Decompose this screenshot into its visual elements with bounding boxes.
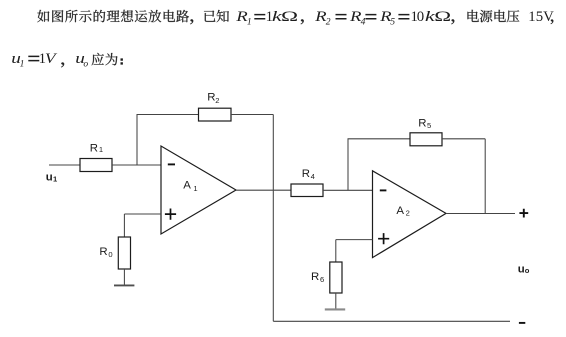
- svg-text:o: o: [525, 266, 530, 275]
- label uo: [518, 263, 530, 275]
- problem text: power supply voltage: [468, 10, 520, 23]
- svg-text:Ω: Ω: [434, 9, 451, 25]
- svg-text:2: 2: [406, 209, 410, 218]
- wire down to R6: [335, 240, 337, 262]
- formula R2 = R4 = R5 = 10k ohm: [314, 8, 451, 28]
- wire R0 to ground: [123, 269, 125, 285]
- A2 minus sign: [380, 189, 387, 191]
- svg-text:4: 4: [361, 17, 366, 28]
- resistor R1: [80, 159, 112, 172]
- label R5: [418, 118, 431, 130]
- ground (A2 bias): [325, 308, 345, 310]
- A1 minus sign: [168, 163, 175, 165]
- svg-text:u: u: [46, 172, 53, 184]
- svg-text:4: 4: [311, 172, 315, 181]
- problem text: 已知: [204, 10, 229, 22]
- resistor R2: [199, 108, 232, 121]
- wire A1 output to R4: [236, 189, 291, 191]
- resistor R5: [410, 133, 442, 146]
- fullwidth comma: [61, 62, 64, 67]
- label R1: [90, 143, 103, 155]
- wire junction up to feedback R2: [136, 115, 138, 166]
- svg-text:R: R: [418, 118, 426, 130]
- resistor R6: [330, 262, 342, 293]
- svg-text:5: 5: [390, 17, 395, 28]
- svg-text:5: 5: [427, 121, 431, 130]
- fullwidth comma: [551, 19, 554, 24]
- wire down to output: [484, 139, 486, 214]
- wire to R2 left: [137, 114, 199, 116]
- resistor R0: [118, 237, 130, 269]
- fullwidth comma: [451, 19, 454, 24]
- label R2: [207, 92, 219, 105]
- label R4: [302, 168, 315, 181]
- wire R5 right to corner: [442, 138, 485, 140]
- op-amp A2: [373, 171, 447, 258]
- formula u1 = 1V: [11, 50, 58, 69]
- wire R4 to A2 inverting input: [323, 189, 373, 191]
- output plus terminal: [519, 209, 528, 218]
- svg-text:A: A: [396, 205, 404, 217]
- fullwidth comma: [190, 19, 193, 24]
- svg-text:6: 6: [320, 275, 324, 284]
- formula R1 = 1k ohm: [235, 8, 298, 28]
- wire R6 to ground: [335, 293, 337, 309]
- svg-text:R: R: [302, 168, 310, 180]
- svg-text:R: R: [207, 92, 215, 104]
- svg-text:R: R: [90, 143, 98, 155]
- resistor R4: [291, 184, 323, 197]
- svg-text:2: 2: [326, 17, 331, 28]
- wire down to R0: [123, 214, 125, 237]
- A1 plus sign: [165, 209, 176, 220]
- label R0: [99, 246, 112, 259]
- wire to R5 left: [348, 138, 411, 140]
- svg-text:1: 1: [99, 145, 103, 154]
- wire R1 to A1 inverting input: [112, 164, 161, 166]
- wire A1 noninverting input: [124, 213, 161, 215]
- svg-text:Ω: Ω: [281, 9, 298, 25]
- svg-text:R: R: [99, 246, 107, 258]
- label R6: [311, 271, 324, 284]
- fullwidth comma: [301, 19, 304, 24]
- svg-text:0: 0: [108, 250, 112, 259]
- problem text: should be: [92, 53, 118, 66]
- svg-text:1: 1: [20, 58, 25, 69]
- wire R2 right to corner: [231, 114, 273, 116]
- formula uo: [75, 50, 88, 69]
- wire junction up to R5: [347, 139, 349, 191]
- label A2: [396, 205, 409, 218]
- output minus terminal: [519, 322, 525, 324]
- ground (A1 bias): [114, 284, 134, 286]
- svg-text:1: 1: [193, 184, 197, 193]
- svg-text:u: u: [518, 263, 525, 275]
- svg-text:2: 2: [215, 96, 219, 105]
- svg-text:15V: 15V: [528, 9, 554, 25]
- A2 plus sign: [378, 233, 389, 244]
- svg-text:0: 0: [417, 9, 424, 25]
- svg-text:1: 1: [247, 17, 252, 28]
- svg-text:R: R: [311, 271, 319, 283]
- colon: [121, 58, 123, 64]
- node: input terminal u1 wire: [49, 164, 80, 166]
- problem text line 1: Chinese description: [37, 10, 189, 23]
- svg-text:o: o: [83, 58, 88, 69]
- op-amp A1: [161, 146, 236, 234]
- svg-text:A: A: [183, 180, 191, 192]
- wire A2 noninverting input: [336, 239, 373, 241]
- wire vertical feedback/bottom bus: [272, 115, 274, 322]
- wire bottom bus to output minus: [273, 320, 510, 322]
- label A1: [183, 180, 197, 193]
- label u1: [46, 172, 58, 184]
- wire A2 output: [446, 213, 515, 215]
